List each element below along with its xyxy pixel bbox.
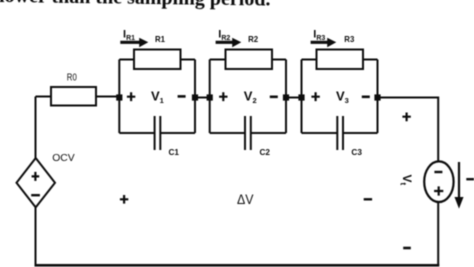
svg-text:C1: C1	[169, 147, 180, 157]
svg-text:OCV: OCV	[52, 152, 74, 164]
svg-text:R0: R0	[67, 73, 77, 84]
svg-text:IR1: IR1	[123, 29, 135, 42]
svg-text:R1: R1	[155, 34, 165, 44]
svg-text:ΔV: ΔV	[237, 191, 254, 207]
svg-text:IR2: IR2	[218, 29, 230, 42]
svg-text:Vt: Vt	[399, 175, 415, 186]
svg-text:V2: V2	[244, 88, 257, 105]
svg-text:R2: R2	[248, 34, 258, 44]
svg-text:R3: R3	[344, 34, 354, 44]
svg-text:IR3: IR3	[313, 29, 325, 42]
svg-text:V3: V3	[336, 88, 349, 105]
svg-text:C2: C2	[260, 147, 271, 157]
svg-text:C3: C3	[351, 147, 362, 157]
svg-text:V1: V1	[151, 88, 164, 105]
